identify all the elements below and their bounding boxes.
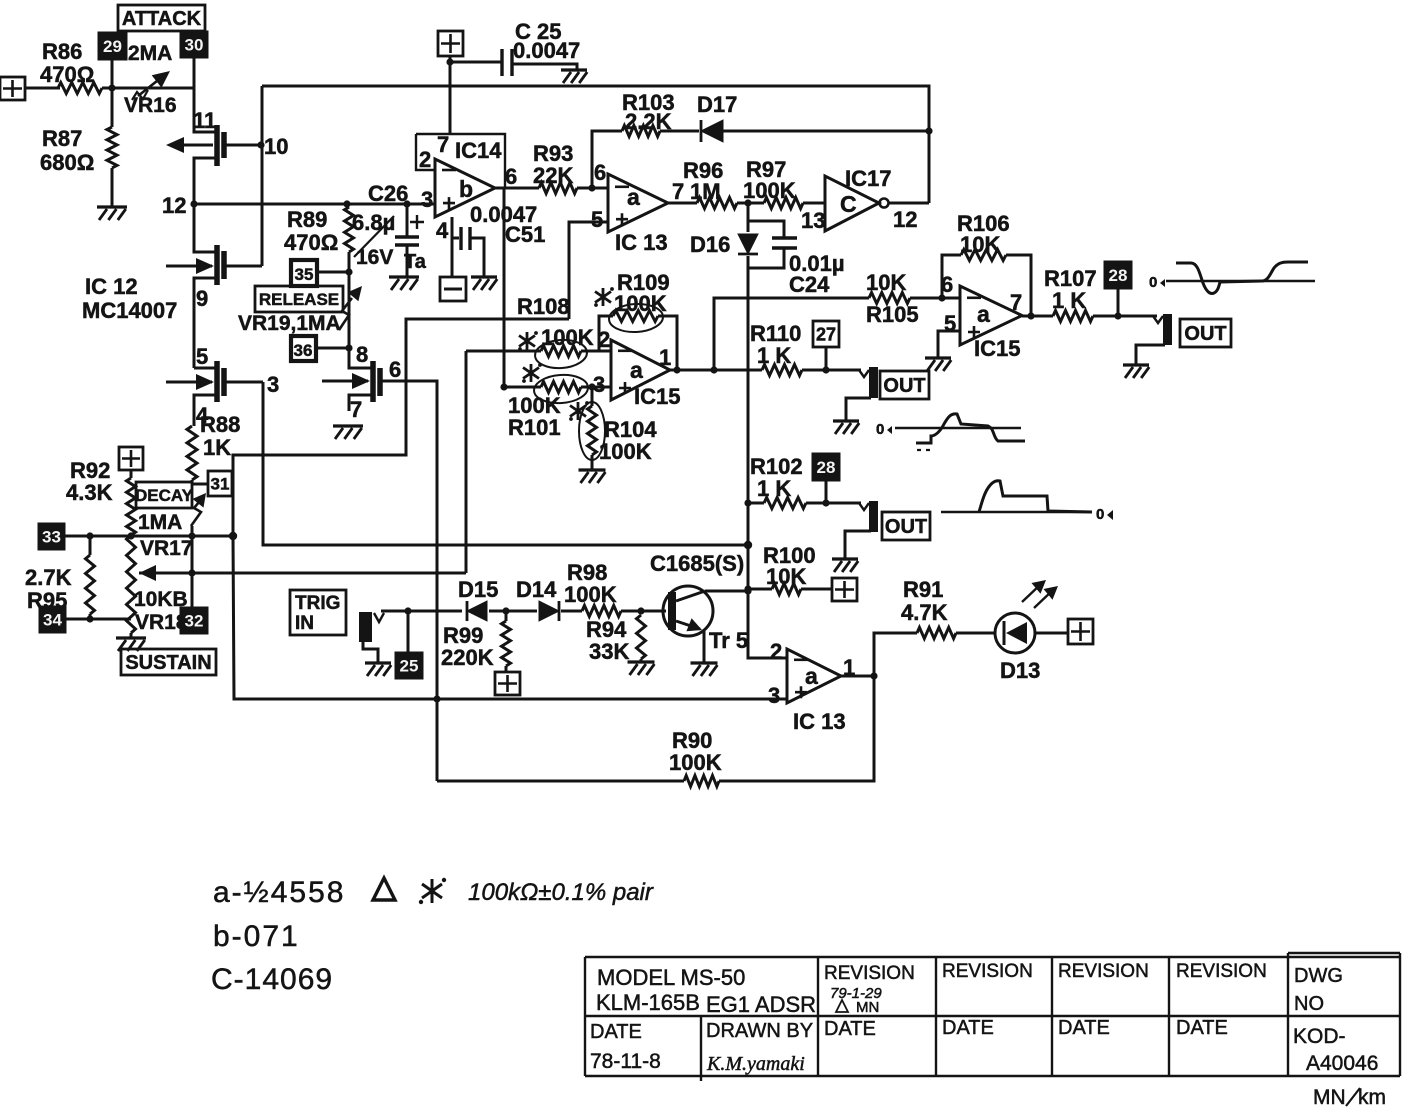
jack OUT B — [859, 370, 869, 377]
terminal + D13 — [1068, 619, 1093, 644]
svg-text:9: 9 — [196, 286, 208, 311]
terminal 29 — [99, 33, 126, 59]
terminal +V input — [0, 77, 25, 100]
wire IC13a out — [668, 202, 697, 205]
wire IC14 out — [495, 187, 539, 190]
title block table — [585, 957, 1400, 1076]
star R109 — [595, 288, 611, 306]
resistor R101 100K — [504, 386, 541, 389]
pot VR17 wiper arrow — [191, 496, 204, 526]
star 100K pin2 — [519, 332, 535, 350]
svg-text:a: a — [977, 301, 990, 327]
wire to R91 — [874, 633, 917, 676]
svg-text:a-½4558: a-½4558 — [213, 876, 345, 909]
svg-text:10K: 10K — [960, 232, 1000, 257]
terminal 25 — [407, 611, 410, 653]
svg-text:25: 25 — [400, 657, 419, 676]
svg-text:a: a — [627, 184, 640, 210]
svg-text:1: 1 — [659, 345, 671, 370]
wire 30 to M1 drain node — [193, 57, 196, 88]
svg-text:OUT: OUT — [1184, 323, 1226, 345]
svg-text:VR17: VR17 — [140, 537, 193, 560]
resistor R104 100K — [591, 387, 594, 406]
svg-text:2: 2 — [770, 639, 782, 664]
svg-text:34: 34 — [43, 611, 62, 630]
svg-text:KLM-165B: KLM-165B — [596, 990, 700, 1015]
node R86/R87 — [108, 84, 115, 91]
resistor 100K pin2 pair — [466, 350, 541, 353]
terminal - IC14 — [440, 277, 466, 301]
svg-text:5: 5 — [196, 344, 208, 369]
svg-text:R105: R105 — [866, 302, 919, 327]
wire pin2 riser to R109 — [599, 316, 613, 351]
svg-text:100kΩ±0.1% pair: 100kΩ±0.1% pair — [468, 879, 654, 906]
svg-text:4.3K: 4.3K — [66, 480, 113, 505]
svg-text:OUT: OUT — [885, 516, 927, 538]
terminal + R100 — [832, 578, 857, 601]
svg-text:IC 13: IC 13 — [793, 709, 846, 734]
terminal 28 out C — [813, 454, 839, 480]
ground Tr5 — [691, 661, 718, 664]
terminal 36 — [291, 336, 316, 361]
wire pin5 to ground — [938, 331, 960, 358]
capacitor C24 — [748, 221, 784, 237]
wire D17 to IC17 out node — [723, 130, 929, 133]
svg-text:TRIG: TRIG — [295, 593, 340, 614]
resistor R99 220K — [505, 611, 508, 621]
capacitor C51 — [451, 217, 454, 277]
svg-text:MC14007: MC14007 — [82, 298, 177, 323]
svg-text:MN: MN — [1313, 1086, 1346, 1108]
svg-text:7: 7 — [437, 132, 449, 157]
svg-text:b: b — [459, 176, 473, 202]
wire pin12 to IC14 — [194, 203, 435, 206]
wire M3 gate down to long bus y546 — [263, 382, 748, 545]
wire VR17 wiper to 32 — [191, 526, 194, 608]
star R104 — [570, 402, 586, 420]
svg-text:a: a — [805, 663, 818, 689]
svg-text:ATTACK: ATTACK — [122, 8, 202, 30]
node gate M1 — [257, 141, 264, 148]
svg-text:R86: R86 — [42, 39, 82, 64]
wire IC13b out — [841, 675, 874, 678]
pot VR18 sustain — [127, 535, 136, 633]
svg-text:33: 33 — [42, 528, 61, 547]
resistor R100 10K — [748, 588, 772, 591]
wire 29 to node — [111, 59, 114, 88]
transistor IC12 M1 pins 11/10/12 — [194, 88, 215, 132]
svg-text:5: 5 — [591, 207, 603, 232]
diode D17 — [701, 120, 723, 142]
LED D13 — [995, 613, 1035, 653]
svg-text:DECAY: DECAY — [135, 486, 194, 505]
svg-text:6: 6 — [594, 160, 606, 185]
wire IC15a out — [670, 369, 762, 372]
svg-text:b-071: b-071 — [213, 920, 300, 953]
svg-text:R89: R89 — [287, 207, 327, 232]
op-amp IC13 a (6/5/7) — [608, 174, 668, 232]
pot label SUSTAIN — [121, 649, 216, 675]
resistor R102 1K — [748, 502, 764, 505]
ground M4 source — [333, 424, 363, 427]
svg-text:680Ω: 680Ω — [40, 150, 94, 175]
svg-text:REVISION: REVISION — [942, 961, 1033, 982]
transistor IC12 M4 pins 8/6/7 — [349, 348, 371, 368]
svg-text:RELEASE: RELEASE — [259, 290, 339, 309]
svg-text:NO: NO — [1294, 993, 1324, 1015]
svg-text:12: 12 — [893, 207, 917, 232]
resistor R95 — [89, 536, 92, 555]
terminal 34 — [40, 607, 65, 632]
op-amp IC13 b (2/3/1) — [787, 649, 841, 703]
svg-text:a: a — [630, 357, 643, 383]
svg-text:220K: 220K — [441, 645, 494, 670]
svg-text:IN: IN — [295, 613, 314, 634]
svg-text:VR16: VR16 — [124, 94, 177, 117]
wire pin5 jog — [569, 222, 608, 319]
svg-text:30: 30 — [185, 36, 204, 55]
svg-text:DATE: DATE — [942, 1017, 994, 1039]
op-amp IC15 b (6/5/7) — [960, 286, 1022, 345]
jack TRIG — [359, 612, 372, 642]
svg-text:IC 13: IC 13 — [615, 230, 668, 255]
star R101 — [523, 364, 539, 382]
svg-text:A40046: A40046 — [1306, 1052, 1378, 1075]
svg-text:C24: C24 — [789, 272, 830, 297]
svg-text:MN: MN — [856, 999, 879, 1016]
svg-text:0: 0 — [1149, 274, 1157, 291]
terminal 33 — [39, 524, 64, 549]
svg-text:3: 3 — [768, 683, 780, 708]
node R96 R97 — [737, 202, 764, 205]
svg-text:R108: R108 — [517, 294, 570, 319]
resistor R103 — [622, 126, 660, 137]
wire node 33 — [64, 535, 233, 538]
transistor IC12 M2 pins 12/9 — [194, 204, 215, 252]
svg-text:22K: 22K — [533, 163, 573, 188]
svg-text:100K: 100K — [541, 325, 594, 350]
wire IC17 out to bus — [889, 202, 929, 205]
svg-text:2: 2 — [419, 147, 431, 172]
svg-text:4.7K: 4.7K — [901, 600, 948, 625]
svg-text:R91: R91 — [903, 577, 943, 602]
svg-text:MODEL MS-50: MODEL MS-50 — [597, 965, 745, 990]
svg-text:2: 2 — [598, 327, 610, 352]
svg-text:IC14: IC14 — [455, 138, 502, 163]
svg-text:6: 6 — [941, 272, 953, 297]
svg-text:DATE: DATE — [824, 1018, 876, 1040]
svg-text:SUSTAIN: SUSTAIN — [125, 652, 211, 674]
terminal 28 out A — [1105, 262, 1131, 288]
ground C25 — [561, 68, 587, 71]
svg-text:0: 0 — [876, 421, 884, 438]
wire R108 net — [233, 319, 569, 536]
resistor R92 / pot VR17 — [130, 470, 133, 478]
pot VR16 wiper arrow — [138, 77, 162, 96]
resistor R88 — [187, 426, 197, 480]
wire gates vertical from top bus — [261, 86, 264, 266]
svg-text:4: 4 — [436, 218, 449, 243]
diode D15 — [467, 601, 487, 621]
ground R94 — [628, 660, 655, 663]
wire IC14out down to R101 — [503, 188, 506, 387]
terminal 31 — [192, 483, 208, 486]
svg-text:10: 10 — [264, 134, 288, 159]
svg-text:1MA: 1MA — [138, 511, 182, 534]
resistor R94 33K — [637, 615, 646, 659]
ground VR18 — [130, 633, 133, 638]
svg-text:1K: 1K — [203, 435, 231, 460]
svg-text:R88: R88 — [200, 412, 240, 437]
wire R86 to VR16 — [102, 87, 194, 90]
ground jack TRIG — [363, 642, 378, 663]
svg-text:0.0047: 0.0047 — [513, 38, 580, 63]
ground R87 — [97, 205, 127, 208]
svg-text:1M: 1M — [690, 179, 721, 204]
resistor R87 — [111, 88, 114, 127]
svg-text:28: 28 — [1109, 266, 1128, 285]
svg-text:DWG: DWG — [1294, 965, 1343, 987]
wire riser to R105 — [714, 298, 869, 370]
resistor R96 — [697, 198, 737, 209]
pot VR19 wiper arrow — [339, 298, 352, 330]
svg-text:DATE: DATE — [590, 1021, 642, 1043]
svg-text:D13: D13 — [1000, 658, 1040, 683]
svg-text:1 K: 1 K — [1052, 288, 1086, 313]
svg-text:100K: 100K — [743, 178, 796, 203]
svg-text:32: 32 — [185, 612, 204, 631]
svg-text:REVISION: REVISION — [1058, 961, 1149, 982]
resistor R109 — [613, 311, 658, 322]
buffer IC17 c — [825, 176, 879, 231]
op-amp IC15 a (2/3/1) — [611, 340, 670, 400]
wire + to IC14 pin7 — [449, 56, 452, 134]
label OUT B — [880, 371, 929, 399]
svg-text:REVISION: REVISION — [1176, 961, 1267, 982]
svg-text:VR19,1MA: VR19,1MA — [238, 312, 341, 335]
svg-text:16V: 16V — [356, 246, 393, 269]
wire 100K into pin2 net from wiper line — [465, 351, 468, 573]
resistor R93 — [539, 183, 577, 194]
ground jack A — [1123, 363, 1149, 366]
svg-text:D16: D16 — [690, 232, 730, 257]
svg-text:6: 6 — [389, 357, 401, 382]
svg-text:C1685(S): C1685(S) — [650, 551, 744, 576]
resistor R86 — [58, 83, 102, 94]
svg-text:6: 6 — [505, 164, 517, 189]
waveform envelope positive — [941, 511, 1092, 513]
svg-text:REVISION: REVISION — [824, 963, 915, 984]
svg-text:100K: 100K — [599, 439, 652, 464]
terminal 27 — [813, 321, 839, 347]
pot label ATTACK — [118, 5, 205, 31]
terminal + C25 — [438, 31, 463, 56]
svg-text:0: 0 — [1096, 506, 1104, 523]
LED arrows — [1022, 584, 1041, 602]
wire R97 to IC17 — [803, 202, 825, 205]
svg-text:8: 8 — [356, 342, 368, 367]
svg-text:27: 27 — [816, 325, 836, 345]
svg-text:470Ω: 470Ω — [40, 62, 94, 87]
svg-text:78-11-8: 78-11-8 — [590, 1050, 661, 1073]
svg-text:470Ω: 470Ω — [284, 230, 338, 255]
svg-text:3: 3 — [593, 372, 605, 397]
ground R104 — [579, 468, 606, 471]
slash 16V mark — [354, 216, 394, 257]
svg-text:3: 3 — [421, 187, 433, 212]
terminal 30 — [181, 32, 207, 57]
diode D14 — [539, 601, 559, 621]
svg-text:1 K: 1 K — [757, 476, 791, 501]
wire VR18 wiper arrow to IC15 pin3 net — [139, 565, 156, 581]
resistor R107 1K — [1053, 311, 1093, 322]
wire R93 to IC13a pin6 — [577, 187, 608, 190]
ground IC15b pin5 — [925, 356, 951, 359]
wire IC15b out / R107 — [1022, 315, 1053, 318]
ground C26 — [389, 275, 419, 278]
svg-text:28: 28 — [817, 458, 836, 477]
svg-text:D14: D14 — [516, 577, 557, 602]
svg-text:IC 12: IC 12 — [85, 274, 138, 299]
capacitor C25 — [450, 61, 502, 64]
terminal 32 — [181, 608, 207, 633]
terminal 35 — [291, 260, 317, 286]
resistor R97 — [764, 198, 803, 209]
svg-text:IC15: IC15 — [974, 336, 1020, 361]
svg-text:31: 31 — [211, 475, 230, 494]
diode D16 — [747, 203, 750, 232]
label OUT A — [1180, 319, 1231, 347]
wire node 34 — [65, 618, 131, 621]
wire feedback from pin6 — [592, 131, 622, 188]
terminal + R99 — [495, 672, 520, 695]
wire +V to R86 — [25, 87, 60, 90]
svg-text:2.7K: 2.7K — [25, 565, 72, 590]
svg-text:10K: 10K — [766, 564, 806, 589]
svg-text:11: 11 — [193, 108, 216, 133]
svg-text:IC15: IC15 — [634, 384, 680, 409]
svg-text:33K: 33K — [589, 639, 629, 664]
svg-text:DRAWN BY: DRAWN BY — [706, 1020, 813, 1042]
svg-text:2MA: 2MA — [128, 42, 172, 65]
svg-text:10K: 10K — [866, 270, 906, 295]
svg-text:C-14069: C-14069 — [211, 963, 333, 996]
svg-text:Ta: Ta — [404, 251, 427, 273]
pot label DECAY — [136, 482, 192, 508]
op-amp IC14 b — [416, 134, 505, 188]
resistor R91 4.7K — [917, 628, 956, 639]
svg-text:EG1 ADSR: EG1 ADSR — [706, 992, 816, 1017]
resistor R98 100K — [582, 606, 621, 617]
svg-text:1 K: 1 K — [757, 343, 791, 368]
label OUT C — [882, 512, 930, 540]
svg-text:12: 12 — [162, 193, 186, 218]
resistor R110 1K — [762, 365, 802, 376]
svg-text:7: 7 — [1010, 290, 1022, 315]
svg-text:3: 3 — [267, 372, 279, 397]
svg-text:C: C — [840, 191, 857, 217]
jack OUT C — [859, 503, 869, 510]
svg-text:29: 29 — [103, 37, 122, 56]
note 100K pair — [373, 878, 395, 900]
node bus546 — [744, 541, 752, 549]
svg-text:35: 35 — [295, 265, 314, 284]
transistor IC12 M3 pins 5/4/3 — [194, 367, 215, 370]
resistor R105 10K — [869, 293, 910, 304]
jack label TRIG IN — [290, 590, 346, 635]
wire R103 to D17 — [660, 130, 699, 133]
svg-text:7: 7 — [350, 397, 362, 422]
svg-text:100K: 100K — [564, 582, 617, 607]
terminal + DECAY — [119, 447, 143, 470]
resistor R89 — [347, 203, 349, 206]
svg-text:C26: C26 — [368, 181, 408, 206]
svg-text:6.8µ: 6.8µ — [352, 210, 395, 235]
transistor Tr5 C1685 — [663, 586, 713, 636]
svg-text:36: 36 — [294, 341, 313, 360]
ground jack B — [833, 419, 859, 422]
pot label RELEASE — [255, 286, 343, 312]
svg-text:KOD-: KOD- — [1293, 1025, 1346, 1048]
wire node33 to IC13b pin3 — [233, 536, 787, 699]
ground jack C — [832, 557, 858, 560]
resistor R90 100K — [719, 676, 874, 781]
svg-text:OUT: OUT — [883, 375, 925, 397]
wire top bus — [262, 86, 929, 203]
ground C51 — [471, 275, 497, 278]
wire M4 drain down to IC13 pin3 and R90 — [434, 381, 437, 781]
svg-text:K.M.yamaki: K.M.yamaki — [706, 1053, 805, 1075]
svg-text:IC17: IC17 — [845, 166, 891, 191]
svg-text:R101: R101 — [508, 415, 561, 440]
jack OUT A — [1153, 316, 1163, 323]
svg-text:13: 13 — [801, 208, 825, 233]
svg-text:DATE: DATE — [1058, 1017, 1110, 1039]
svg-text:DATE: DATE — [1176, 1017, 1228, 1039]
svg-text:D17: D17 — [697, 92, 737, 117]
resistor R106 10K feedback — [942, 255, 961, 298]
svg-text:km: km — [1358, 1086, 1386, 1108]
svg-text:Tr 5: Tr 5 — [709, 628, 748, 653]
svg-text:D15: D15 — [458, 577, 498, 602]
svg-text:C51: C51 — [505, 222, 545, 247]
svg-text:100K: 100K — [669, 750, 722, 775]
svg-text:R87: R87 — [42, 126, 82, 151]
